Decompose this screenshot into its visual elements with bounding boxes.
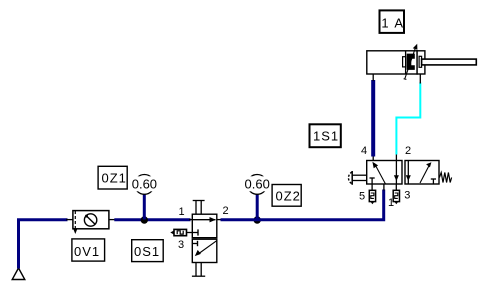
node junction at 0Z1 (141, 216, 148, 223)
wire 0Z1 stem (143, 195, 146, 220)
svg-text:A: A (394, 16, 403, 31)
svg-text:5: 5 (359, 190, 365, 202)
svg-text:1: 1 (179, 206, 185, 218)
svg-text:1: 1 (388, 197, 394, 209)
svg-text:1: 1 (381, 16, 388, 31)
cylinder 1A piston with magnet (403, 54, 422, 70)
node junction at 0Z2 (254, 216, 261, 223)
0S1 manual plunger actuator bottom (192, 263, 205, 277)
svg-text:0Z2: 0Z2 (276, 188, 301, 203)
svg-text:2: 2 (223, 205, 229, 217)
0S1 exhaust silencer port 3 (170, 229, 192, 235)
wire 1S1 port 2 to cylinder right port (exhaust, cyan) (396, 74, 420, 161)
wire 0Z2 stem (256, 195, 259, 220)
label box 0V1 (72, 239, 105, 261)
pressure gauge 0Z2 (243, 175, 272, 195)
0S1 manual plunger actuator top (193, 201, 205, 215)
label box 0S1 (132, 240, 164, 262)
cylinder 1A piston rod (422, 59, 477, 65)
svg-text:3: 3 (178, 239, 184, 251)
1S1 exhaust silencer port 5 (369, 184, 375, 204)
3/2 valve 0S1 : bottom position square (192, 239, 217, 262)
pressure gauge 0Z1 (130, 175, 159, 195)
svg-text:4: 4 (361, 145, 367, 157)
wire source to 0V1 (pressure line) (19, 220, 74, 269)
cylinder 1A body (367, 51, 425, 74)
cylinder 1A adjustment arrow (404, 44, 418, 80)
label box 0Z2 (272, 185, 301, 207)
svg-text:0V1: 0V1 (74, 244, 100, 259)
svg-text:0.60: 0.60 (245, 176, 270, 191)
svg-text:1S1: 1S1 (313, 129, 339, 144)
1S1 exhaust silencer port 3 (393, 184, 399, 204)
1S1 push button actuator (348, 171, 366, 185)
shut-off valve 0V1 (73, 211, 109, 234)
wire 1S1 port 4 to cylinder left port (372, 74, 374, 161)
compressed air source 0Z (12, 268, 25, 280)
1S1 return spring (439, 173, 451, 183)
wire 0S1 to 1S1 port 1 (217, 184, 384, 220)
label box 0Z1 (98, 166, 127, 189)
label box 1A (380, 10, 405, 33)
3/2 valve 0S1 : top position square (192, 214, 217, 238)
svg-text:0Z1: 0Z1 (102, 171, 127, 186)
5/2 valve 1S1 : left position square (active) (367, 161, 402, 185)
wire 0V1 to 0S1 (109, 219, 192, 221)
svg-text:0S1: 0S1 (134, 244, 160, 259)
label box 1S1 (310, 124, 341, 147)
svg-text:2: 2 (405, 145, 411, 157)
svg-text:0.60: 0.60 (132, 176, 157, 191)
5/2 valve 1S1 : right position square (405, 161, 439, 185)
svg-text:3: 3 (404, 190, 410, 202)
